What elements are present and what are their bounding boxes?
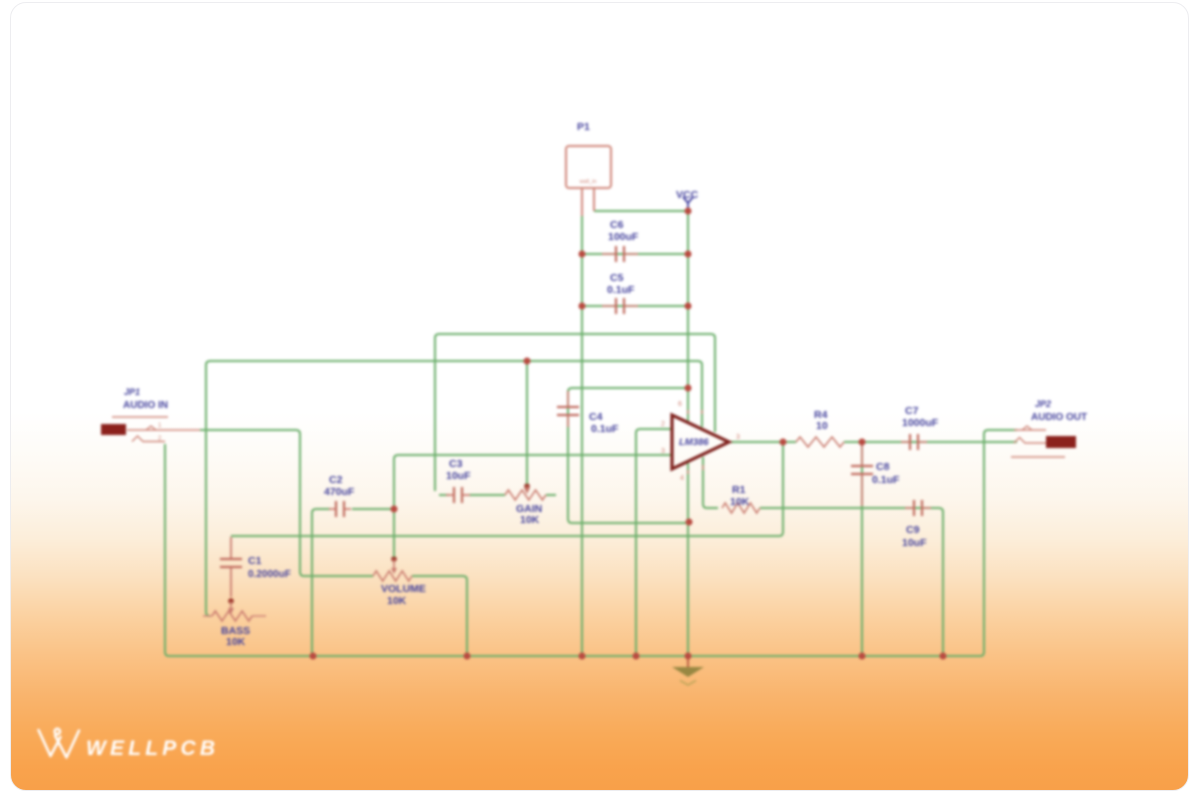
svg-text:VOLUME: VOLUME (381, 583, 426, 595)
svg-text:JP1: JP1 (124, 387, 140, 397)
svg-text:0.1uF: 0.1uF (607, 284, 635, 296)
svg-text:10uF: 10uF (446, 470, 471, 482)
svg-text:AUDIO IN: AUDIO IN (123, 400, 168, 411)
svg-text:C9: C9 (906, 524, 920, 536)
svg-text:C8: C8 (876, 461, 890, 473)
svg-text:VCC: VCC (676, 189, 699, 201)
svg-text:C3: C3 (449, 458, 463, 470)
svg-text:C5: C5 (610, 272, 624, 284)
svg-text:470uF: 470uF (324, 486, 355, 498)
svg-text:C1: C1 (248, 555, 262, 567)
svg-text:C7: C7 (905, 405, 919, 417)
svg-text:R1: R1 (732, 484, 746, 496)
svg-text:C6: C6 (610, 219, 624, 231)
svg-text:4: 4 (680, 475, 684, 482)
svg-text:1: 1 (158, 423, 162, 429)
svg-text:3: 3 (661, 448, 665, 455)
svg-text:0.2000uF: 0.2000uF (248, 569, 291, 580)
svg-text:10K: 10K (387, 595, 407, 607)
svg-text:6: 6 (678, 401, 682, 408)
svg-text:WELLPCB: WELLPCB (86, 737, 219, 760)
svg-text:wall_in: wall_in (579, 179, 597, 185)
svg-text:10K: 10K (730, 496, 750, 508)
svg-text:2: 2 (661, 421, 665, 428)
svg-text:LM386: LM386 (679, 437, 709, 448)
svg-text:10K: 10K (520, 514, 540, 526)
svg-text:0.1uF: 0.1uF (872, 474, 900, 486)
svg-text:AUDIO OUT: AUDIO OUT (1031, 412, 1087, 423)
svg-text:10: 10 (816, 420, 828, 432)
svg-text:1000uF: 1000uF (902, 417, 939, 429)
svg-text:3: 3 (736, 434, 740, 441)
svg-text:P1: P1 (577, 121, 590, 133)
svg-text:10K: 10K (226, 636, 246, 648)
svg-text:JP2: JP2 (1035, 399, 1051, 409)
svg-text:C4: C4 (589, 411, 603, 423)
svg-text:100uF: 100uF (608, 231, 639, 243)
svg-text:C2: C2 (329, 474, 343, 486)
svg-text:10uF: 10uF (902, 537, 927, 549)
svg-text:0.1uF: 0.1uF (591, 423, 619, 435)
